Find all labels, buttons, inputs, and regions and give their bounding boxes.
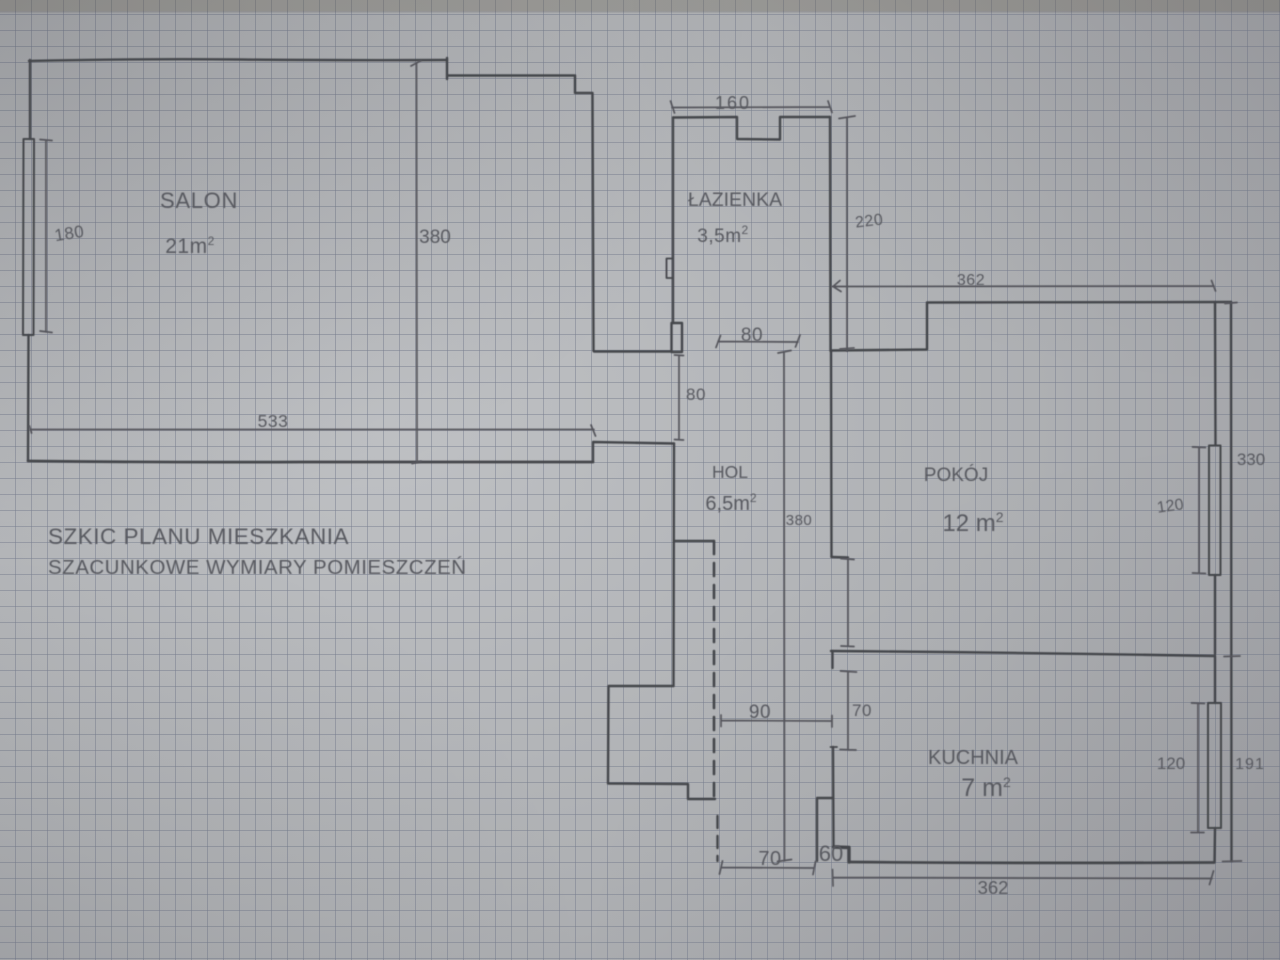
wall stub at pokoj door top <box>832 556 849 559</box>
wall lazienka top with notch <box>673 117 830 140</box>
wall exterior right <box>1230 302 1233 861</box>
svg-text:90: 90 <box>749 702 771 723</box>
wall lazienka bottom <box>594 350 671 352</box>
svg-text:SZACUNKOWE WYMIARY POMIESZCZEŃ: SZACUNKOWE WYMIARY POMIESZCZEŃ <box>48 556 467 579</box>
wall hol top-left jog <box>593 442 674 462</box>
dim 220 line <box>839 116 855 351</box>
svg-text:220: 220 <box>854 211 884 231</box>
dim 120 pokoj window <box>1193 447 1206 574</box>
tick top of kuchnia west wall <box>831 746 838 748</box>
svg-text:70: 70 <box>852 701 872 720</box>
svg-text:120: 120 <box>1157 754 1185 773</box>
dim 80 lazienka door <box>716 335 800 348</box>
dim 533 line <box>30 425 596 436</box>
dim 380 hol line <box>778 351 792 862</box>
wall kuchnia east upper <box>1214 656 1216 703</box>
dim 90 line <box>721 715 832 727</box>
wall salon left upper <box>29 60 31 139</box>
wall salon left lower <box>27 335 30 461</box>
svg-text:3,5m2: 3,5m2 <box>697 223 748 247</box>
svg-text:362: 362 <box>978 877 1009 898</box>
dim 70 kuchnia door <box>840 671 857 750</box>
dim 191 ticks <box>1223 860 1242 863</box>
svg-text:21m2: 21m2 <box>165 234 215 258</box>
wall salon bottom <box>28 461 593 462</box>
svg-text:380: 380 <box>786 512 813 529</box>
wall stub below divider left <box>831 651 833 668</box>
svg-text:533: 533 <box>258 411 289 431</box>
dim 380 salon line <box>411 61 421 464</box>
wall kuchnia bottom <box>849 861 1214 865</box>
wall lazienka left <box>672 118 674 324</box>
wall salon right <box>593 93 594 351</box>
window salon left <box>23 139 34 335</box>
dashed stub lower <box>716 816 718 861</box>
svg-text:SZKIC PLANU MIESZKANIA: SZKIC PLANU MIESZKANIA <box>48 524 349 549</box>
svg-text:191: 191 <box>1235 756 1265 773</box>
svg-text:12 m2: 12 m2 <box>942 509 1003 537</box>
dim 330 ticks <box>1224 303 1240 657</box>
wall pokoj right inner lower <box>1214 575 1216 654</box>
dim 80 hol vertical <box>675 355 684 440</box>
wall kuchnia west <box>832 747 835 847</box>
wall pokoj right inner <box>1214 302 1217 445</box>
svg-text:160: 160 <box>715 93 751 113</box>
wall salon top <box>29 59 447 61</box>
dim 362 bottom line <box>833 870 1214 887</box>
wall step to dashed <box>674 540 714 542</box>
window kuchnia right <box>1208 703 1221 828</box>
door jamb lazienka <box>672 323 683 352</box>
window pokoj right <box>1209 446 1221 576</box>
corner shading <box>0 0 760 560</box>
svg-text:ŁAZIENKA: ŁAZIENKA <box>688 189 782 211</box>
svg-text:362: 362 <box>957 272 985 289</box>
svg-text:60: 60 <box>819 841 843 866</box>
svg-text:70: 70 <box>758 848 781 870</box>
wall step right of salon <box>447 58 592 93</box>
door post kuchnia bold <box>834 847 850 862</box>
svg-text:80: 80 <box>686 385 706 404</box>
wall pokoj left <box>830 351 833 558</box>
svg-text:380: 380 <box>419 227 451 248</box>
svg-text:POKÓJ: POKÓJ <box>924 464 988 486</box>
dashed open boundary hol <box>713 541 716 798</box>
svg-text:KUCHNIA: KUCHNIA <box>928 747 1019 769</box>
svg-text:80: 80 <box>741 325 763 346</box>
dim 160 line <box>671 101 833 113</box>
dim 80 pokoj door <box>841 559 854 647</box>
dim 120 kuchnia window <box>1191 703 1205 833</box>
svg-text:HOL: HOL <box>712 462 748 482</box>
wall pokoj top-left step <box>831 302 1231 351</box>
dim 362 top line <box>832 281 1216 292</box>
divider pokoj/kuchnia <box>831 651 1214 656</box>
protrusion below salon <box>608 686 715 799</box>
top page-edge band <box>0 0 1280 11</box>
wall kuchnia east lower <box>1213 828 1216 863</box>
svg-text:330: 330 <box>1237 450 1265 469</box>
fixture small rect lazienka left <box>667 259 674 279</box>
wall hol left <box>672 444 675 687</box>
svg-text:SALON: SALON <box>160 188 238 213</box>
svg-text:6,5m2: 6,5m2 <box>705 491 756 515</box>
dim 70 bottom line <box>720 861 816 875</box>
dim 180 line <box>40 140 52 333</box>
niche left of kuchnia <box>817 798 833 861</box>
wall lazienka right <box>829 117 832 351</box>
